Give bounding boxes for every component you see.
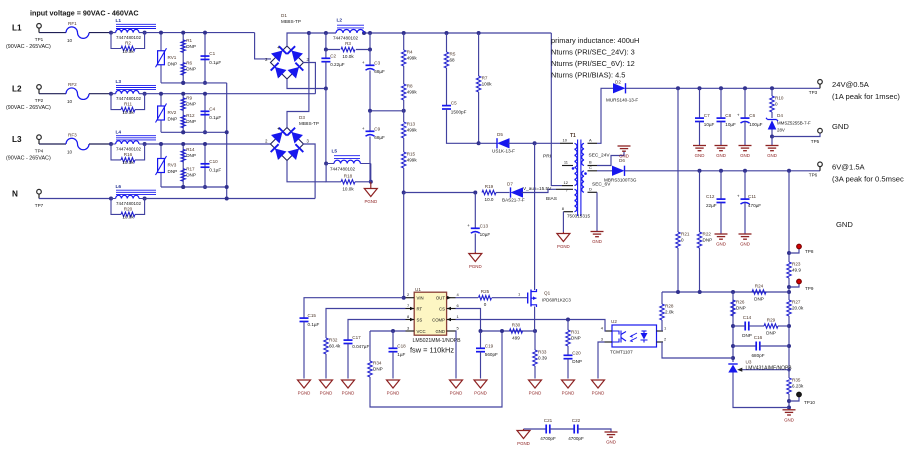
wire R31 top <box>567 320 569 331</box>
svg-text:GND: GND <box>832 122 849 131</box>
svg-text:DNP: DNP <box>754 297 764 302</box>
junction R3 right C3 column <box>368 48 372 52</box>
resistor R5 68 <box>444 52 456 68</box>
wire R13-R15 <box>403 138 405 152</box>
resistor R15 499k <box>402 152 418 168</box>
wire T1 pin7 stub <box>556 188 573 190</box>
wire Y-cap line <box>524 428 547 430</box>
junction 24V R21 <box>676 86 680 90</box>
svg-text:6: 6 <box>457 303 460 308</box>
diode D6 MBRS3100T3G <box>604 166 637 183</box>
wire filter bus at y=187.0 <box>161 186 227 188</box>
wire pin8 pgnd stem <box>562 232 564 234</box>
wire D1 - output <box>287 79 326 89</box>
svg-text:GND: GND <box>836 220 853 229</box>
svg-text:DNP: DNP <box>186 173 196 178</box>
svg-text:L3: L3 <box>116 79 122 85</box>
pin label B <box>589 160 592 165</box>
inductor L6 (common-mode choke 7447480102) <box>111 184 156 206</box>
svg-text:C1: C1 <box>209 51 215 56</box>
note: transformer parameters <box>551 36 639 80</box>
pin label U1-1 <box>457 314 460 319</box>
junction L4 left <box>109 142 113 146</box>
junction 6V C11 <box>743 169 747 173</box>
svg-text:TP1: TP1 <box>35 37 44 42</box>
capacitor C11 <box>737 194 761 208</box>
wire VIN line to C15 <box>304 298 404 318</box>
transformer T1 winding SEC_24V <box>582 143 584 165</box>
wire R21 bottom to FB rail <box>677 248 679 292</box>
wire C14 left <box>733 325 745 327</box>
svg-text:RF1: RF1 <box>68 21 77 26</box>
svg-text:R10: R10 <box>775 96 784 101</box>
svg-text:499k: 499k <box>407 128 418 133</box>
diode D2 MURS140-13-F <box>606 83 638 102</box>
wire R25 to Q1 gate <box>492 297 528 299</box>
svg-text:RT: RT <box>417 307 423 312</box>
svg-text:6V@1.5A: 6V@1.5A <box>832 163 866 172</box>
svg-text:R23: R23 <box>792 262 801 267</box>
varistor RV1 (DNP) <box>156 33 178 83</box>
svg-text:2.0k: 2.0k <box>665 310 674 315</box>
svg-text:+: + <box>737 113 740 118</box>
wire VCC line <box>370 330 406 332</box>
resistor R20 (choke damping) <box>111 199 145 220</box>
svg-text:1µF: 1µF <box>397 352 405 357</box>
svg-text:DNP: DNP <box>168 61 178 66</box>
svg-text:C14: C14 <box>743 315 752 320</box>
svg-text:3: 3 <box>407 326 410 331</box>
svg-text:4700pF: 4700pF <box>568 436 584 441</box>
svg-text:R17: R17 <box>186 167 195 172</box>
svg-text:5: 5 <box>457 326 460 331</box>
pin label U1-2 <box>407 292 410 297</box>
resistor R28 2.0k <box>660 304 675 320</box>
svg-text:TP8: TP8 <box>805 249 814 254</box>
svg-text:10.0k: 10.0k <box>122 215 134 220</box>
bridge rectifier D1 MB8S-TP <box>265 45 309 80</box>
resistor R22 DNP <box>697 232 712 248</box>
wire C3 bottom <box>370 71 404 111</box>
junction C16 left <box>731 344 735 348</box>
shunt regulator U3 LMV431AIMF/NOPB <box>728 360 792 373</box>
resistor R1 (DNP) <box>181 38 196 53</box>
junction C9 top <box>368 109 372 113</box>
wire C12 top <box>720 171 722 199</box>
wire R21 top <box>677 88 679 232</box>
svg-text:560pF: 560pF <box>485 352 498 357</box>
wire C22 to gnd <box>578 429 611 432</box>
output label GND1 <box>832 122 849 131</box>
wire U1 pin7 stub <box>406 308 415 310</box>
wire C5 bottom to clamp node <box>447 109 479 143</box>
transformer T1 core <box>578 140 581 217</box>
svg-text:0.1µF: 0.1µF <box>209 60 221 65</box>
wire OUT to R25 <box>456 297 479 299</box>
svg-text:8: 8 <box>562 206 565 211</box>
pin label U1-4 <box>457 292 460 297</box>
svg-text:0: 0 <box>681 238 684 243</box>
svg-text:L1: L1 <box>12 23 22 32</box>
wire fuse RF1 to choke L1 <box>89 32 111 34</box>
svg-text:28V: 28V <box>777 128 785 133</box>
svg-text:PGND: PGND <box>342 391 355 396</box>
svg-text:U1: U1 <box>415 287 421 292</box>
svg-text:D5: D5 <box>497 132 503 137</box>
svg-text:U2: U2 <box>611 319 617 324</box>
svg-text:499: 499 <box>512 336 520 341</box>
svg-text:R2: R2 <box>125 41 131 46</box>
junction L1 left <box>109 31 113 35</box>
svg-text:GND: GND <box>716 153 726 158</box>
svg-text:input voltage = 90VAC - 460VAC: input voltage = 90VAC - 460VAC <box>30 9 139 18</box>
resistor R31 DNP <box>566 330 581 346</box>
svg-text:PGND: PGND <box>364 199 377 204</box>
svg-text:7447480102: 7447480102 <box>116 35 142 40</box>
wire T1 pinB to GND <box>597 152 624 166</box>
net label N <box>12 189 18 198</box>
wire D5 anode to drain node <box>508 142 535 144</box>
svg-text:7: 7 <box>407 303 410 308</box>
wire RT line to R32 <box>326 309 406 339</box>
svg-text:C17: C17 <box>352 335 361 340</box>
wire R7 top <box>478 33 480 76</box>
svg-text:C15: C15 <box>308 313 317 318</box>
resistor R24 DNP <box>752 284 766 302</box>
capacitor C12 <box>706 194 726 208</box>
svg-text:TP9: TP9 <box>805 286 814 291</box>
output label 24V peak <box>832 92 900 101</box>
junction R17 bottom <box>181 185 185 189</box>
junction D4 GND node <box>770 135 774 139</box>
label SEC_6V <box>592 182 611 188</box>
capacitor C3 68uF <box>362 60 385 74</box>
wire C8 bottom <box>720 122 722 146</box>
varistor RV2 (DNP) <box>156 94 178 133</box>
junction opto node <box>731 356 735 360</box>
junction 6V divider <box>787 169 791 173</box>
svg-text:C20: C20 <box>572 350 581 355</box>
wire R35 bottom <box>788 394 790 410</box>
junction R31 node <box>566 318 570 322</box>
fuse RF3 <box>66 133 89 155</box>
svg-text:L4: L4 <box>116 130 122 136</box>
capacitor C16 680pF <box>751 335 764 358</box>
wire C10 column <box>204 144 206 187</box>
diode D5 US1K-13-F <box>492 132 515 154</box>
wire R18 line <box>326 164 341 182</box>
svg-text:R21: R21 <box>681 232 690 237</box>
svg-text:49.9: 49.9 <box>792 268 801 273</box>
svg-text:100k: 100k <box>482 82 493 87</box>
junction C14 right <box>787 324 791 328</box>
svg-text:R4: R4 <box>407 50 413 55</box>
wire C1 column <box>204 33 206 83</box>
pin label 12 <box>564 180 569 185</box>
output label 6V peak <box>832 175 904 184</box>
wire DC+ rail after choke <box>364 32 551 34</box>
svg-text:C12: C12 <box>706 194 715 199</box>
pin label U2-2 <box>664 337 667 342</box>
wire D6 cathode 6V rail <box>625 170 820 172</box>
svg-text:DNP: DNP <box>186 119 196 124</box>
inductor L1 (common-mode choke 7447480102) <box>111 18 156 40</box>
power ground PGND (R33) <box>529 380 542 396</box>
wire C11 bottom <box>744 203 746 234</box>
svg-text:60.4k: 60.4k <box>329 344 341 349</box>
optocoupler U2 TCMT1107 <box>610 319 657 355</box>
wire D3 + output riser <box>287 33 309 128</box>
resistor R26 DNP <box>731 300 746 316</box>
svg-text:TP7: TP7 <box>35 203 44 208</box>
wire C9 bottom to PGND node <box>369 137 371 182</box>
svg-text:DNP: DNP <box>572 359 582 364</box>
note: (90VAC - 265VAC) for L1 <box>6 44 51 50</box>
svg-text:20.0k: 20.0k <box>792 306 804 311</box>
wire D2 cathode to 24V rail <box>626 87 820 89</box>
wire R7 bottom <box>478 92 480 143</box>
net label L1 <box>12 23 22 32</box>
resistor R7 100k <box>476 76 492 92</box>
power ground PGND (U2) <box>592 380 605 396</box>
svg-text:VCC: VCC <box>417 329 426 334</box>
wire PGND stem <box>370 182 372 189</box>
wire U2 pin3 stub <box>605 341 613 343</box>
svg-text:MB8S-TP: MB8S-TP <box>299 121 319 126</box>
resistor R35 6.23k <box>787 378 804 394</box>
resistor R33 0.39 <box>533 350 548 366</box>
wire TP9 stub <box>789 284 799 287</box>
label SEC_24V <box>589 153 611 159</box>
wire SS line to C17 <box>348 320 406 341</box>
svg-text:LM5021MM-1/NOPB: LM5021MM-1/NOPB <box>413 338 462 344</box>
pin label U1-8 <box>407 314 410 319</box>
wire C13 pgnd stem <box>474 252 476 254</box>
wire T1 pin11 stub <box>562 165 573 167</box>
test point TP9 <box>797 279 814 291</box>
wire U2 pin2 stub <box>657 341 664 343</box>
svg-text:(90VAC - 265VAC): (90VAC - 265VAC) <box>6 105 51 111</box>
svg-text:4: 4 <box>457 292 460 297</box>
power ground PGND (C20) <box>562 380 575 396</box>
svg-text:DNP: DNP <box>186 66 196 71</box>
svg-text:DNP: DNP <box>168 169 178 174</box>
ground GND (C7) <box>693 146 706 159</box>
svg-text:C2: C2 <box>330 53 336 58</box>
wire C14 to R29 <box>749 325 764 327</box>
svg-text:R12: R12 <box>186 113 195 118</box>
svg-text:L5: L5 <box>332 149 338 155</box>
junction C4 top <box>203 92 207 96</box>
label D6 <box>619 158 625 163</box>
svg-text:DNP: DNP <box>186 102 196 107</box>
junction C3 bottom / divider <box>402 109 406 113</box>
wire T1 pinA stub <box>588 142 598 144</box>
label D1 part <box>281 19 301 24</box>
wire T1 pinC stub <box>588 170 598 172</box>
svg-text:L2: L2 <box>12 85 22 94</box>
svg-text:R19: R19 <box>485 184 494 189</box>
svg-text:TP5: TP5 <box>811 139 820 144</box>
junction C19 node <box>479 329 483 333</box>
svg-text:R35: R35 <box>792 378 801 383</box>
svg-text:499k: 499k <box>407 158 418 163</box>
junction C2/D1- node <box>324 87 328 91</box>
svg-text:MB8S-TP: MB8S-TP <box>281 19 301 24</box>
ground GND (C12) <box>715 234 728 247</box>
svg-text:2: 2 <box>265 139 268 144</box>
junction R3 left on C2 column <box>324 48 328 52</box>
svg-text:C18: C18 <box>397 343 406 348</box>
svg-text:7447480102: 7447480102 <box>116 201 142 206</box>
junction L6 right <box>143 197 147 201</box>
wire C4 column <box>204 94 206 133</box>
junction star on N rail <box>225 197 229 201</box>
svg-text:TP6: TP6 <box>809 173 818 178</box>
svg-text:499k: 499k <box>407 56 418 61</box>
svg-text:+: + <box>277 127 280 133</box>
svg-text:10µF: 10µF <box>704 122 715 127</box>
wire L5 out down <box>370 164 372 182</box>
wire TP7 stem <box>38 194 40 199</box>
resistor R16 (choke damping) <box>111 144 145 165</box>
wire filter star vertical to N <box>226 83 228 199</box>
svg-text:DNP: DNP <box>703 238 713 243</box>
svg-text:11: 11 <box>564 160 569 165</box>
svg-text:1: 1 <box>518 292 521 297</box>
svg-text:DNP: DNP <box>766 331 776 336</box>
wire R18 right <box>355 181 371 183</box>
svg-text:R25: R25 <box>481 289 490 294</box>
wire C19 bottom <box>480 352 482 379</box>
wire U1 pin8 stub <box>406 319 415 321</box>
junction RV1 top rail <box>159 31 163 35</box>
wire U1 pin1 stub <box>447 319 456 321</box>
wire C2 top <box>325 50 327 59</box>
resistor R3 10.0k <box>341 41 355 59</box>
svg-text:R24: R24 <box>755 284 764 289</box>
svg-text:RF2: RF2 <box>68 82 77 87</box>
wire C13 bottom <box>474 234 476 253</box>
svg-text:0: 0 <box>775 102 778 107</box>
power ground PGND (T1 pin8) <box>557 234 570 250</box>
wire U2 pin1 up to R28 <box>661 320 663 331</box>
svg-text:10: 10 <box>67 38 73 43</box>
wire DC- from D1 down to L5 <box>325 89 327 164</box>
svg-text:GND: GND <box>606 440 616 445</box>
svg-text:D7: D7 <box>507 182 513 187</box>
svg-text:Nturns (PRI/SEC_24V): 3: Nturns (PRI/SEC_24V): 3 <box>551 48 635 57</box>
wire VIN node to R19 <box>404 192 476 194</box>
power ground PGND (C15) <box>298 380 311 396</box>
wire D1 + output to DC+ rail <box>287 33 309 46</box>
wire R27 bottom <box>788 316 790 378</box>
zener diode D4 MMSZ5255B-7-F 28V <box>766 113 811 133</box>
svg-text:1: 1 <box>457 314 460 319</box>
svg-text:V_aux=15.5V: V_aux=15.5V <box>523 186 552 191</box>
junction R6 bottom <box>181 81 185 85</box>
pin label U1-5 <box>457 326 460 331</box>
svg-text:7: 7 <box>566 188 569 193</box>
svg-text:2: 2 <box>265 57 268 62</box>
wire C17 bottom <box>347 344 349 379</box>
junction L6 left <box>109 197 113 201</box>
pin label U1-7 <box>407 303 410 308</box>
svg-text:R31: R31 <box>571 330 580 335</box>
svg-text:R26: R26 <box>736 300 745 305</box>
svg-text:68µF: 68µF <box>374 69 385 74</box>
resistor R10 0 <box>770 96 784 112</box>
svg-text:7447480102: 7447480102 <box>333 36 359 41</box>
test point TP8 <box>797 244 814 254</box>
resistor R14 (DNP) <box>181 147 196 162</box>
svg-text:GND: GND <box>740 242 750 247</box>
ground GND (Y-caps) <box>605 432 618 445</box>
wire R33 top <box>534 331 536 350</box>
pin label 10 <box>563 138 568 143</box>
wire C6 top <box>744 88 746 118</box>
pin label A <box>589 138 592 143</box>
wire clamp to D5 <box>479 142 497 144</box>
junction 24V C7 <box>698 86 702 90</box>
test point TP2 <box>35 85 44 103</box>
wire 6V to TP8 <box>788 171 790 262</box>
svg-text:+: + <box>467 223 470 228</box>
svg-text:DNP: DNP <box>736 306 746 311</box>
svg-text:+: + <box>737 194 740 199</box>
junction C1 top <box>203 31 207 35</box>
wire C2 bottom to D1- node <box>325 62 327 89</box>
junction DC+ C3 node <box>368 31 372 35</box>
capacitor C8 <box>717 113 737 127</box>
svg-text:+: + <box>277 45 280 51</box>
pin arrows U1 <box>410 296 451 321</box>
svg-text:DNP: DNP <box>742 333 752 338</box>
capacitor C22 4700pF <box>568 418 584 441</box>
wire C18 top <box>392 331 394 348</box>
junction L3 right <box>143 92 147 96</box>
wire C13 top <box>474 193 476 229</box>
svg-text:VIN: VIN <box>417 296 424 301</box>
svg-text:BIAS: BIAS <box>546 196 557 202</box>
svg-text:PGND: PGND <box>557 244 570 249</box>
svg-text:D6: D6 <box>619 158 625 163</box>
resistor R8 499k <box>402 84 418 100</box>
test point TP5 <box>811 128 823 144</box>
wire L1 rail drop to bridge D1 pin 2 <box>255 33 271 59</box>
note fsw <box>410 346 454 355</box>
wire R34 bottom loop to CS line <box>370 331 502 407</box>
wire U1 pin5 stub <box>447 330 456 332</box>
pin label 11 <box>564 160 569 165</box>
svg-text:+: + <box>362 60 365 65</box>
svg-text:LMV431AIMF/NOPB: LMV431AIMF/NOPB <box>746 365 793 371</box>
svg-text:GND: GND <box>784 417 794 422</box>
svg-text:(90VAC - 265VAC): (90VAC - 265VAC) <box>6 156 51 162</box>
svg-text:Q1: Q1 <box>544 291 551 296</box>
svg-text:R3: R3 <box>345 41 351 46</box>
svg-text:D4: D4 <box>777 113 783 118</box>
junction DC+ choke out <box>362 31 366 35</box>
svg-text:GND: GND <box>740 153 750 158</box>
label D1 <box>281 13 287 18</box>
wire C15 bottom <box>303 322 305 379</box>
svg-text:PGND: PGND <box>298 391 311 396</box>
junction drain node <box>533 141 537 145</box>
ground GND (C8) <box>715 146 728 159</box>
svg-text:R20: R20 <box>124 207 133 212</box>
resistor R12 (DNP) <box>181 113 196 128</box>
